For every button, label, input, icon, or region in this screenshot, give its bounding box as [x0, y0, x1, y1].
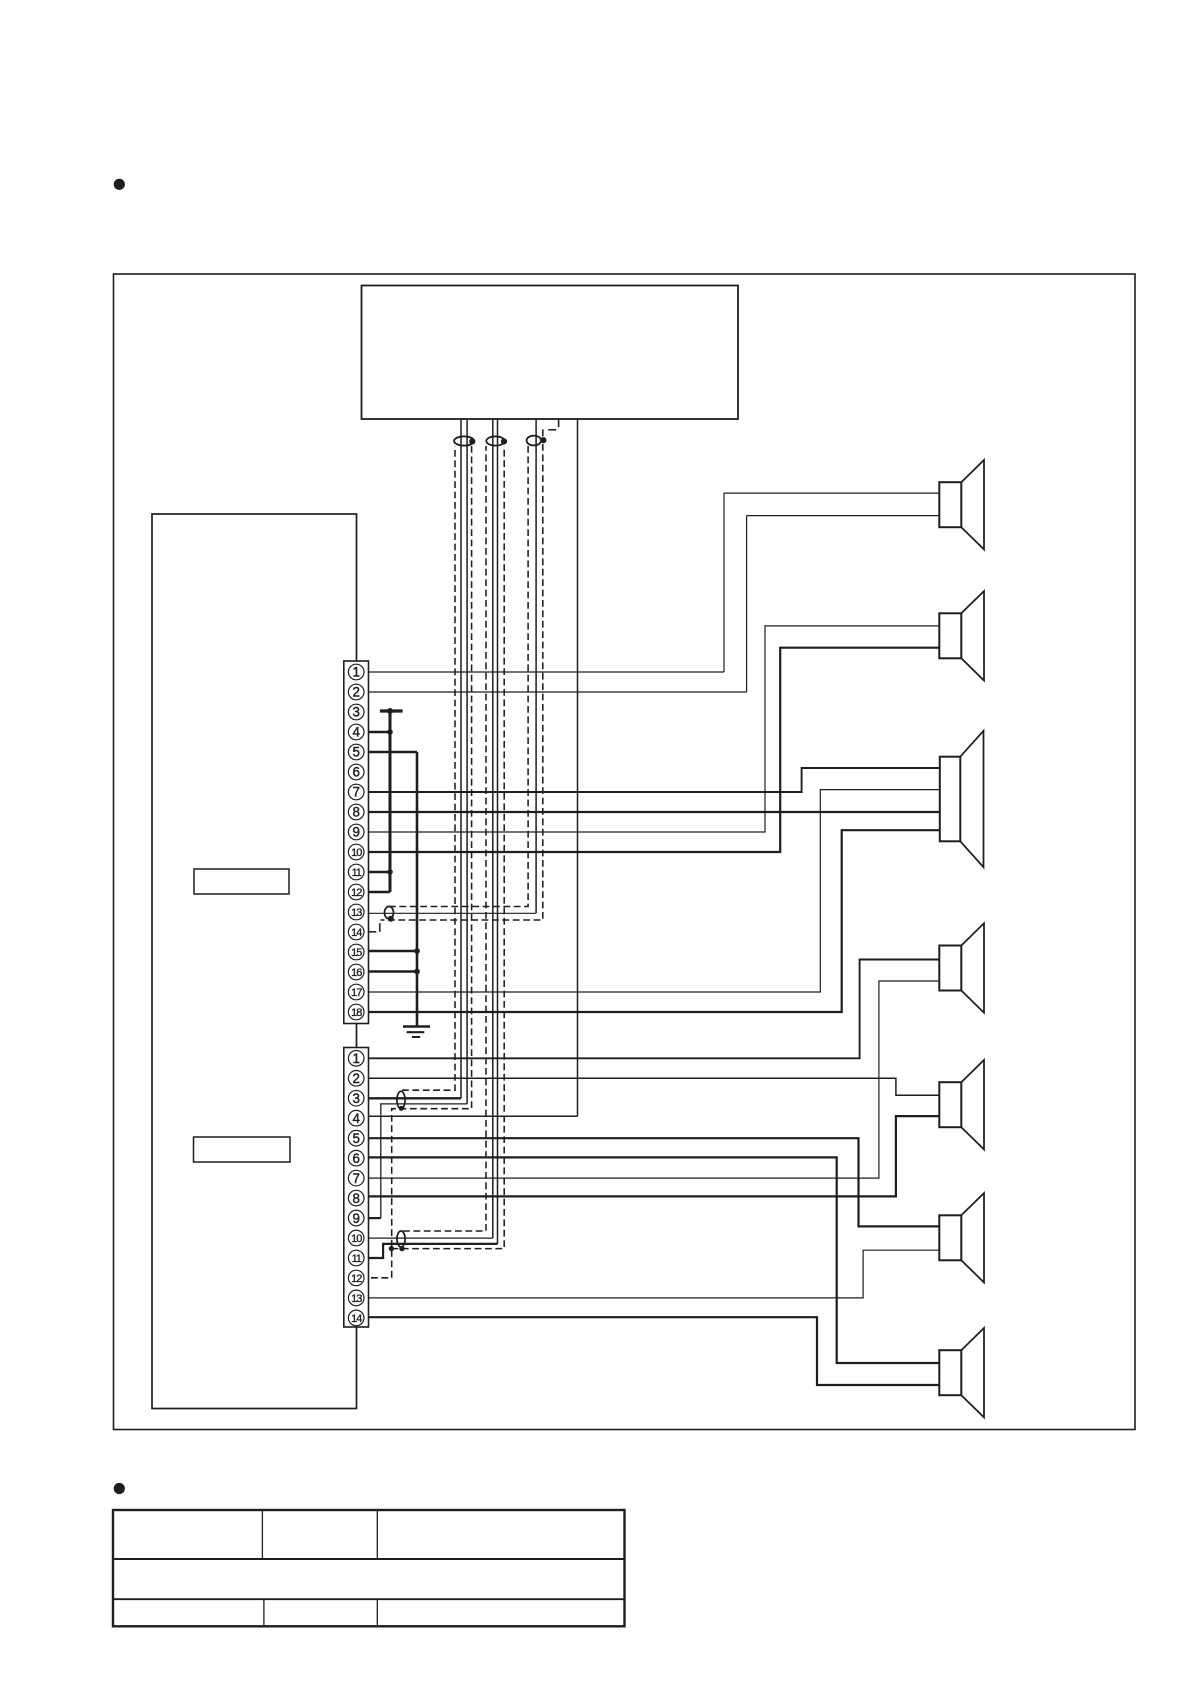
- wire: strip A pin13 core run: [369, 912, 537, 914]
- svg-text:10: 10: [351, 1233, 362, 1245]
- pin circle A15: [348, 944, 364, 960]
- pin circle B5: [348, 1130, 364, 1146]
- wire: strip B pin9 jog to shielded pair1 core-b: [381, 1104, 467, 1218]
- wire: head unit 4th lead vertical (to strip B pin4): [577, 419, 579, 1116]
- shield cable3 step tick at head unit (dash segment): [558, 419, 560, 427]
- svg-text:6: 6: [352, 765, 359, 780]
- ferrite grommet 3 (head unit leads): [527, 436, 541, 446]
- outer diagram frame: [114, 274, 1136, 1430]
- wire: strip B pin9 stub: [369, 1217, 381, 1219]
- wire: pin2 to speaker SP1 -: [747, 515, 940, 517]
- head unit box (radio receiver): [362, 286, 739, 420]
- svg-text:2: 2: [352, 1071, 359, 1086]
- wire: shielded pair2 core-b vertical: [497, 419, 499, 1244]
- terminal T-bar (power stub) near strip A pin3: [380, 709, 403, 712]
- wire: pin1 riser: [723, 493, 725, 672]
- pin circle B12: [348, 1270, 364, 1286]
- svg-text:13: 13: [351, 1293, 362, 1305]
- svg-text:14: 14: [351, 927, 362, 939]
- svg-text:16: 16: [351, 967, 362, 979]
- wire: pin2 riser: [746, 516, 748, 692]
- wire: shielded pair2 core-a vertical (to strip B pin10): [492, 419, 494, 1238]
- shield hook tick to strip A pin14 (dash segment): [379, 923, 381, 932]
- svg-text:13: 13: [351, 907, 362, 919]
- wire: strip B pin10 run to shielded pair2 core-a: [369, 1237, 493, 1239]
- svg-text:7: 7: [352, 785, 359, 800]
- junction dot shield pair2 at grommet 5: [399, 1246, 404, 1251]
- wire: strip B pin8 to speaker SP5 -: [369, 1116, 940, 1196]
- shield wire: cable3 right drain (dashed): [381, 444, 543, 920]
- pin circle B3: [348, 1090, 364, 1106]
- wire: strip B pin6 to speaker SP7 +: [369, 1157, 940, 1363]
- svg-text:18: 18: [351, 1007, 362, 1019]
- pin circle A3: [348, 704, 364, 720]
- wire: shielded pair1 core-b vertical: [466, 419, 468, 1104]
- wire: strip A pin8 to speaker SP3 terminal3: [369, 811, 940, 813]
- speaker SP1: [939, 460, 984, 549]
- wire: strip B pin1 to speaker SP4 +: [369, 960, 940, 1059]
- wire: shielded pair1 core-a vertical (head unit to amp strip B pin3): [460, 419, 462, 1098]
- wire: strip B pin5 to speaker SP6 +: [369, 1138, 941, 1226]
- svg-text:11: 11: [352, 867, 362, 879]
- label box 2 (inside amplifier): [194, 1137, 291, 1162]
- pin circle B13: [348, 1290, 364, 1306]
- ferrite grommet 6 (strip A pin13 lead): [385, 906, 394, 918]
- svg-text:11: 11: [352, 1253, 362, 1265]
- wire: strip B pin4 run to head unit 4th lead: [369, 1115, 578, 1117]
- pin circle A18: [348, 1004, 364, 1020]
- ferrite grommet 4 (strip B pin3 lead): [397, 1091, 405, 1108]
- pin circle A6: [348, 764, 364, 780]
- pin circle B2: [348, 1070, 364, 1086]
- wire: strip A pin16 to ground bus: [369, 970, 418, 973]
- pin circle A7: [348, 784, 364, 800]
- svg-text:3: 3: [352, 1091, 359, 1106]
- label box 1 (inside amplifier): [194, 869, 289, 894]
- wire: pin1 to speaker SP1 +: [724, 492, 939, 494]
- wire: strip A pin10 to speaker SP2 -: [369, 648, 940, 852]
- svg-text:5: 5: [352, 1131, 359, 1146]
- junction dot: pin11 on bus1: [387, 869, 393, 875]
- junction dot on grommet 3: [540, 437, 546, 443]
- pin circle B10: [348, 1230, 364, 1246]
- shield wire: pair1 left drain (dashed): [402, 446, 455, 1090]
- pin circle A10: [348, 844, 364, 860]
- pin circle A13: [348, 904, 364, 920]
- shield cable3 step horizontal (dash segment): [548, 429, 556, 431]
- pin circle A8: [348, 804, 364, 820]
- pin circle A11: [348, 864, 364, 880]
- junction dot: pin16 on ground bus: [414, 969, 420, 975]
- svg-text:12: 12: [351, 887, 362, 899]
- wire: strip B pin14 to speaker SP7 -: [369, 1317, 940, 1385]
- pin circle B11: [348, 1250, 364, 1266]
- speaker SP3: [940, 731, 984, 867]
- pin circle A5: [348, 744, 364, 760]
- pin circle A17: [348, 984, 364, 1000]
- wire: strip A pin9 to speaker SP2 +: [369, 626, 940, 832]
- wire: strip A pin7 to speaker SP3 terminal1: [369, 768, 940, 792]
- amplifier box: [152, 514, 357, 1409]
- speaker SP5: [939, 1060, 984, 1149]
- junction dot on grommet 1: [469, 438, 475, 444]
- wire: strip B pin11 jog to shielded pair2 core-b: [369, 1244, 498, 1258]
- wire: strip A pin15 to ground bus: [369, 950, 418, 953]
- svg-text:7: 7: [352, 1171, 359, 1186]
- wire: strip A pin2 run: [369, 691, 747, 693]
- legend table frame: [113, 1510, 625, 1626]
- svg-text:17: 17: [351, 987, 362, 999]
- bullet marker (bottom): [114, 1483, 125, 1494]
- junction dot shield pair1 at grommet 4: [399, 1106, 404, 1111]
- svg-text:12: 12: [351, 1273, 362, 1285]
- pin circle A4: [348, 724, 364, 740]
- svg-text:14: 14: [351, 1313, 362, 1325]
- ferrite grommet 1 (head unit leads): [454, 436, 474, 445]
- wire: strip A pin18 to speaker SP3 terminal4: [369, 830, 940, 1012]
- pin circle A12: [348, 884, 364, 900]
- bullet marker (top): [114, 179, 125, 190]
- svg-text:2: 2: [352, 685, 359, 700]
- speaker SP2: [939, 591, 984, 680]
- shield cable3 drain upper tick (dash segment): [542, 429, 544, 436]
- ferrite grommet 5 (strip B pin10 lead): [397, 1231, 405, 1247]
- pin circle A1: [348, 664, 364, 680]
- pin circle A2: [348, 684, 364, 700]
- pin circle A16: [348, 964, 364, 980]
- svg-text:4: 4: [352, 1111, 360, 1126]
- shield wire: pair1 right drain down to strip B pin12 (dashed): [369, 446, 472, 1278]
- terminal strip B (14-pin connector): [344, 1048, 369, 1328]
- ground symbol: [403, 1027, 430, 1038]
- wire: strip A pin11 to bus1: [369, 871, 391, 874]
- svg-text:3: 3: [352, 705, 359, 720]
- junction dot shield bus at grommet 5: [389, 1246, 394, 1251]
- pin circle A9: [348, 824, 364, 840]
- svg-text:8: 8: [352, 805, 359, 820]
- svg-text:8: 8: [352, 1191, 359, 1206]
- pin circle B6: [348, 1150, 364, 1166]
- wire: strip B pin7 to speaker SP4 -: [369, 981, 940, 1178]
- junction dot shield cable3 at grommet 6: [388, 916, 394, 922]
- power bus 1 vertical (pins 4/11/12): [389, 711, 392, 892]
- svg-text:1: 1: [352, 1051, 359, 1066]
- wire: strip B pin13 to speaker SP6 -: [369, 1250, 941, 1298]
- speaker SP7: [939, 1328, 984, 1417]
- svg-text:5: 5: [352, 745, 359, 760]
- pin circle B7: [348, 1170, 364, 1186]
- pin circle B4: [348, 1110, 364, 1126]
- shield wire: pair2 left drain (dashed): [403, 446, 486, 1231]
- ferrite grommet 2 (head unit leads): [486, 436, 504, 445]
- shield wire: pair2 right drain (dashed): [391, 446, 504, 1249]
- pin circle A14: [348, 924, 364, 940]
- svg-text:1: 1: [352, 665, 359, 680]
- wire: strip A pin1 run: [369, 671, 725, 673]
- wire: strip B pin3 run to shielded pair1 core-a: [369, 1097, 462, 1099]
- svg-text:9: 9: [352, 1211, 359, 1226]
- pin circle B1: [348, 1051, 364, 1067]
- shield wire: cable3 left drain (dashed): [389, 446, 528, 907]
- shield hook stub at strip A pin14 (dash segment): [369, 931, 377, 933]
- terminal strip A (18-pin connector): [344, 661, 369, 1024]
- junction dot: bus1 at T-bar: [387, 708, 393, 714]
- wire: strip A pin17 to speaker SP3 terminal2: [369, 790, 940, 992]
- wire: strip A pin4 to bus1: [369, 731, 391, 734]
- pin circle B14: [348, 1310, 364, 1326]
- speaker SP4: [939, 923, 984, 1012]
- wire: shielded cable3 core vertical (to strip A pin13): [535, 419, 537, 913]
- speaker SP6: [939, 1193, 984, 1282]
- pin circle B9: [348, 1210, 364, 1226]
- wire: strip B pin2 to speaker SP5 +: [369, 1078, 940, 1095]
- junction dot: pin4 on bus1: [387, 729, 393, 735]
- svg-text:6: 6: [352, 1151, 359, 1166]
- wire: strip A pin5 to ground bus: [369, 751, 418, 754]
- svg-text:4: 4: [352, 725, 360, 740]
- junction dot on grommet 2: [501, 438, 507, 444]
- ground bus vertical: [416, 752, 419, 1027]
- svg-text:15: 15: [351, 947, 362, 959]
- junction dot: pin15 on ground bus: [414, 948, 420, 954]
- pin circle B8: [348, 1190, 364, 1206]
- svg-text:10: 10: [351, 847, 362, 859]
- wire: strip A pin12 to bus1: [369, 891, 391, 894]
- svg-text:9: 9: [352, 825, 359, 840]
